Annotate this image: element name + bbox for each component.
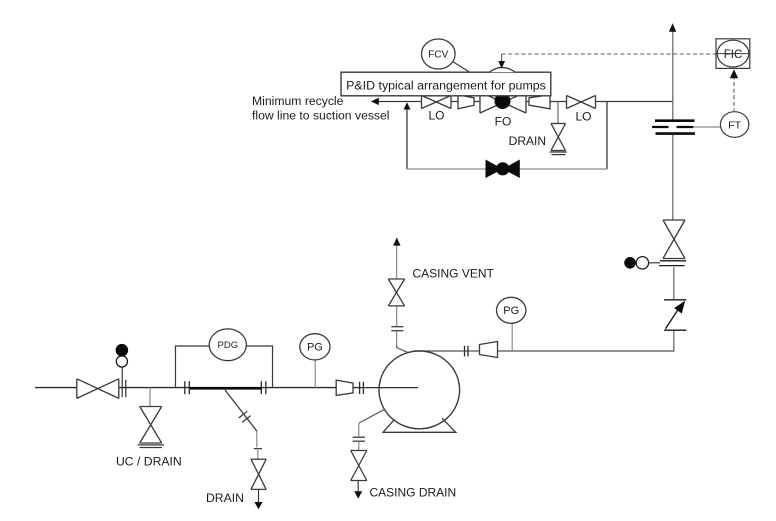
svg-text:P&ID typical arrangement for p: P&ID typical arrangement for pumps	[346, 79, 546, 93]
svg-text:Minimum recycle: Minimum recycle	[252, 94, 344, 108]
svg-text:CASING VENT: CASING VENT	[413, 267, 495, 281]
svg-text:LO: LO	[428, 109, 444, 123]
svg-text:DRAIN: DRAIN	[206, 491, 244, 505]
svg-text:PDG: PDG	[218, 340, 239, 351]
svg-text:DRAIN: DRAIN	[509, 134, 546, 148]
svg-text:UC / DRAIN: UC / DRAIN	[116, 455, 182, 469]
svg-text:flow line to suction vessel: flow line to suction vessel	[252, 109, 390, 123]
svg-text:FT: FT	[728, 119, 741, 131]
svg-text:FIC: FIC	[724, 49, 743, 61]
svg-text:LO: LO	[575, 110, 591, 124]
svg-text:FCV: FCV	[428, 49, 448, 60]
svg-text:PG: PG	[307, 342, 323, 354]
svg-text:PG: PG	[503, 305, 519, 317]
svg-text:CASING DRAIN: CASING DRAIN	[370, 486, 457, 500]
svg-text:FO: FO	[495, 115, 512, 129]
